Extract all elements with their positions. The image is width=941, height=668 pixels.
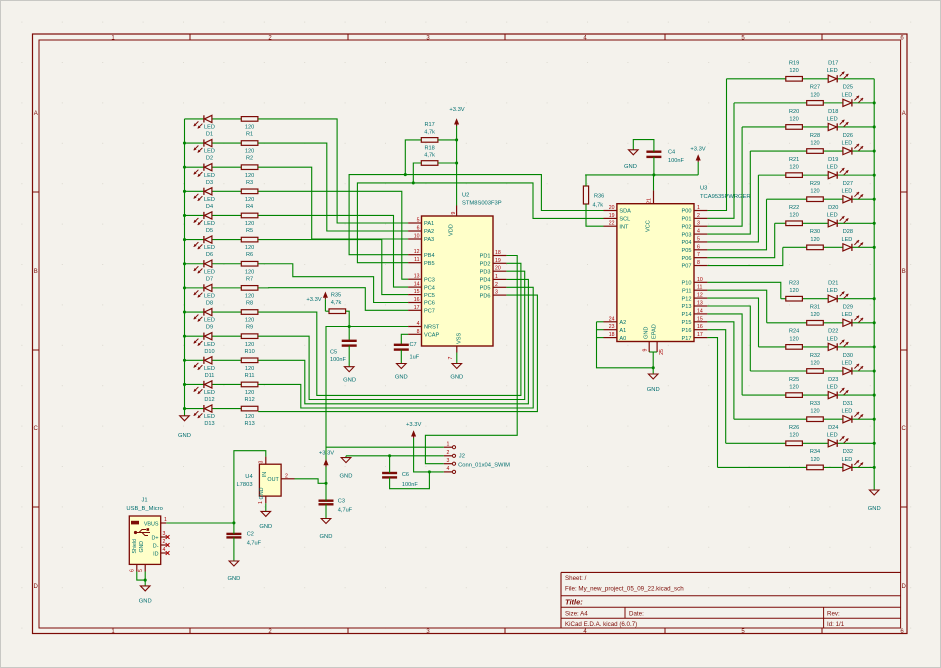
svg-text:12: 12: [414, 249, 420, 255]
svg-text:D3: D3: [206, 180, 213, 186]
svg-text:P03: P03: [682, 232, 692, 238]
svg-text:LED: LED: [841, 189, 852, 195]
svg-text:14: 14: [697, 308, 703, 314]
svg-text:VBUS: VBUS: [144, 521, 159, 527]
wire I2C rail PB4: [349, 175, 603, 255]
svg-text:120: 120: [810, 457, 819, 463]
svg-text:24: 24: [609, 316, 615, 322]
wire R11 to PD4: [258, 279, 528, 403]
wire row D12: [185, 383, 242, 385]
wire VCC rail: [585, 174, 698, 176]
svg-text:13: 13: [414, 274, 420, 280]
svg-text:LED: LED: [827, 385, 838, 391]
resistor R29: [807, 181, 824, 202]
svg-text:LED: LED: [827, 116, 838, 122]
svg-text:LED: LED: [827, 336, 838, 342]
wire VBUS to U4 IN: [234, 451, 266, 523]
svg-text:120: 120: [245, 318, 254, 324]
svg-text:120: 120: [789, 116, 798, 122]
resistor R31: [807, 305, 824, 326]
svg-text:1: 1: [164, 517, 167, 523]
svg-text:GND: GND: [139, 599, 152, 605]
svg-text:LED: LED: [841, 360, 852, 366]
wire P01 to row D25: [707, 103, 734, 218]
svg-text:P07: P07: [682, 264, 692, 270]
svg-text:16: 16: [414, 297, 420, 303]
svg-text:LED: LED: [841, 92, 852, 98]
svg-text:LED: LED: [827, 68, 838, 74]
LED D18: [827, 109, 849, 131]
wire P15 to row D31: [707, 322, 734, 419]
svg-text:15: 15: [414, 289, 420, 295]
svg-text:R36: R36: [594, 194, 604, 200]
wire row D2: [185, 142, 242, 144]
svg-text:2: 2: [495, 282, 498, 288]
wire P07 to row D28: [707, 247, 782, 265]
wire row D29: [767, 322, 875, 324]
wire row D7: [185, 263, 242, 265]
ground GND U4: [259, 511, 272, 530]
power +3.3V R35: [306, 292, 327, 311]
resistor R28: [807, 133, 824, 154]
svg-text:R31: R31: [810, 305, 820, 311]
svg-text:Shield: Shield: [132, 539, 138, 554]
svg-text:B: B: [902, 269, 906, 275]
svg-text:D8: D8: [206, 300, 213, 306]
svg-text:ID: ID: [153, 551, 158, 557]
svg-text:GND: GND: [139, 541, 145, 553]
svg-text:R23: R23: [789, 281, 799, 287]
svg-text:1: 1: [447, 441, 450, 447]
svg-text:4,7k: 4,7k: [424, 130, 435, 136]
svg-text:File: My_new_project_05_09_22.: File: My_new_project_05_09_22.kicad_sch: [565, 585, 684, 592]
svg-text:PD5: PD5: [480, 286, 491, 292]
svg-text:120: 120: [789, 165, 798, 171]
svg-text:120: 120: [789, 385, 798, 391]
LED D31: [841, 401, 863, 423]
wire row D25: [734, 102, 874, 104]
wire U4 OUT to +3.3V: [295, 479, 327, 484]
svg-text:1uF: 1uF: [410, 355, 420, 361]
LED D5: [194, 212, 215, 234]
svg-text:GND: GND: [259, 487, 265, 499]
power +3.3V riser: [319, 451, 334, 467]
wire row D10: [185, 335, 242, 337]
svg-text:R26: R26: [789, 425, 799, 431]
svg-text:D26: D26: [843, 133, 853, 139]
svg-text:P17: P17: [682, 336, 692, 342]
svg-text:GND: GND: [178, 433, 191, 439]
svg-text:LED: LED: [204, 342, 215, 348]
svg-text:120: 120: [245, 173, 254, 179]
svg-text:A0: A0: [619, 336, 626, 342]
svg-text:D9: D9: [206, 325, 213, 331]
svg-text:LED: LED: [204, 269, 215, 275]
wire P03 to row D26: [707, 151, 750, 234]
svg-text:GND: GND: [868, 506, 881, 512]
ground GND C4: [624, 150, 638, 170]
svg-text:D: D: [34, 584, 39, 590]
svg-text:D24: D24: [828, 425, 838, 431]
wire PD1 to J2 pin3: [425, 256, 517, 464]
wire J1 shield GND: [137, 572, 145, 586]
svg-text:R6: R6: [246, 252, 253, 258]
svg-text:23: 23: [609, 324, 615, 330]
resistor R13: [241, 406, 258, 427]
svg-text:PC3: PC3: [424, 277, 435, 283]
svg-text:PD2: PD2: [480, 262, 491, 268]
svg-text:2: 2: [285, 473, 288, 479]
svg-text:4,7k: 4,7k: [331, 300, 342, 306]
J1 reference labels: [126, 498, 162, 513]
svg-text:P04: P04: [682, 240, 692, 246]
svg-text:R7: R7: [246, 276, 253, 282]
wire row D17: [727, 78, 875, 80]
svg-text:R10: R10: [244, 349, 254, 355]
svg-text:R22: R22: [789, 205, 799, 211]
U2 pins: [408, 206, 506, 360]
svg-text:A1: A1: [619, 328, 626, 334]
svg-text:4: 4: [417, 321, 420, 327]
svg-text:D+: D+: [151, 535, 158, 541]
svg-text:Conn_01x04_SWIM: Conn_01x04_SWIM: [458, 462, 510, 468]
U2 reference labels: [462, 193, 502, 207]
wire P00 to row D17: [707, 79, 726, 211]
junction VBUS: [232, 521, 235, 524]
wire right GND bus: [873, 79, 875, 490]
wire R1 to PA1: [258, 119, 408, 223]
wire A2 A1 A0 to GND: [597, 322, 654, 368]
wire row D6: [185, 239, 242, 241]
connector J1 USB_B_Micro body: [129, 516, 160, 564]
capacitor C7: [394, 342, 420, 361]
svg-text:120: 120: [245, 390, 254, 396]
svg-text:D31: D31: [843, 401, 853, 407]
LED D29: [841, 305, 863, 327]
svg-text:P00: P00: [682, 209, 692, 215]
svg-text:R11: R11: [245, 373, 255, 379]
resistor R35: [329, 293, 346, 314]
svg-text:U3: U3: [700, 186, 707, 192]
resistor R36: [583, 186, 604, 209]
title block frame: [561, 572, 901, 628]
resistor R12: [241, 382, 258, 403]
svg-text:LED: LED: [841, 457, 852, 463]
svg-text:J2: J2: [459, 454, 465, 460]
svg-text:18: 18: [495, 250, 501, 256]
ground GND J1: [139, 586, 152, 605]
svg-text:12: 12: [697, 293, 703, 299]
wire row D1: [185, 118, 242, 120]
LED D1: [194, 115, 215, 137]
svg-text:R19: R19: [789, 61, 799, 67]
svg-text:LED: LED: [841, 409, 852, 415]
power +3.3V U3: [690, 146, 705, 175]
svg-text:1: 1: [258, 501, 264, 504]
svg-text:LED: LED: [204, 318, 215, 324]
wire row D28: [783, 246, 874, 248]
svg-text:A: A: [34, 111, 38, 117]
svg-text:LED: LED: [827, 213, 838, 219]
resistor R24: [786, 329, 803, 350]
svg-text:LED: LED: [841, 140, 852, 146]
resistor R2: [241, 141, 258, 162]
J1 pins: [130, 517, 170, 572]
svg-text:9: 9: [451, 211, 457, 214]
svg-text:R18: R18: [424, 146, 434, 152]
svg-text:R5: R5: [246, 228, 253, 234]
wire R36 top: [585, 175, 587, 186]
LED D17: [827, 61, 849, 83]
svg-text:100nF: 100nF: [330, 357, 346, 363]
svg-text:120: 120: [789, 68, 798, 74]
svg-text:VCAP: VCAP: [424, 333, 440, 339]
svg-text:7: 7: [697, 252, 700, 258]
svg-text:LED: LED: [827, 165, 838, 171]
svg-text:C6: C6: [402, 472, 409, 478]
resistor R25: [786, 377, 803, 398]
svg-text:120: 120: [810, 140, 819, 146]
resistor R9: [241, 310, 258, 331]
junction R35 NRST: [348, 325, 351, 328]
wire VCAP to C7: [401, 334, 408, 345]
svg-text:P13: P13: [682, 304, 692, 310]
svg-text:U2: U2: [462, 193, 469, 199]
svg-text:120: 120: [810, 312, 819, 318]
wire row D24: [726, 442, 875, 444]
svg-text:U4: U4: [245, 474, 253, 480]
LED D9: [194, 308, 215, 330]
svg-text:Size: A4: Size: A4: [565, 611, 588, 618]
resistor R3: [241, 165, 258, 186]
svg-text:120: 120: [245, 245, 254, 251]
resistor R21: [786, 157, 803, 178]
svg-text:P06: P06: [682, 256, 692, 262]
U3 reference labels: [700, 186, 751, 201]
wire VSS to GND: [456, 353, 458, 364]
svg-text:8: 8: [697, 260, 700, 266]
svg-text:21: 21: [647, 198, 653, 204]
svg-text:P10: P10: [682, 281, 692, 287]
wire R18 leads: [413, 163, 456, 183]
LED D28: [841, 229, 863, 251]
wire NRST: [326, 327, 408, 484]
svg-text:R29: R29: [810, 181, 820, 187]
U4 pins: [258, 457, 295, 504]
svg-text:GND: GND: [644, 327, 650, 339]
wire P13 to row D30: [707, 306, 750, 371]
wire P04 to row D19: [707, 175, 758, 242]
wire row D30: [750, 370, 874, 372]
svg-text:120: 120: [789, 288, 798, 294]
wire U3 VCC: [653, 175, 655, 191]
wire P17 to row D32: [707, 338, 717, 468]
wire I2C rail PB5: [357, 183, 603, 263]
svg-text:R33: R33: [810, 401, 820, 407]
svg-text:17: 17: [697, 332, 703, 338]
LED D26: [841, 133, 863, 155]
LED D19: [827, 157, 849, 179]
svg-text:C5: C5: [330, 350, 337, 356]
svg-text:Date:: Date:: [629, 611, 644, 618]
svg-text:6: 6: [417, 226, 420, 232]
svg-text:PC4: PC4: [424, 285, 435, 291]
svg-text:D29: D29: [843, 305, 853, 311]
svg-text:A: A: [902, 111, 906, 117]
wire P12 to row D22: [707, 298, 758, 347]
svg-text:1: 1: [495, 274, 498, 280]
svg-text:4,7k: 4,7k: [424, 153, 435, 159]
svg-text:A2: A2: [619, 320, 626, 326]
resistor R8: [241, 286, 258, 307]
wire row D13: [185, 408, 242, 410]
svg-text:3: 3: [259, 460, 265, 463]
wire row D4: [185, 190, 242, 192]
svg-text:20: 20: [495, 266, 501, 272]
svg-text:20: 20: [609, 205, 615, 211]
capacitor C5: [330, 341, 357, 363]
ground GND C7: [395, 364, 408, 381]
svg-text:USB_B_Micro: USB_B_Micro: [126, 506, 162, 512]
junction R18 SCL rail: [412, 181, 415, 184]
junctions on left GND bus: [183, 141, 186, 410]
LED D10: [194, 333, 215, 355]
capacitor C2: [226, 532, 261, 547]
resistor R10: [241, 334, 258, 355]
svg-text:GND: GND: [259, 524, 272, 530]
svg-text:P02: P02: [682, 224, 692, 230]
svg-text:19: 19: [609, 213, 615, 219]
ground GND U3: [647, 374, 660, 393]
ground GND J2: [340, 458, 353, 480]
svg-text:LED: LED: [204, 173, 215, 179]
svg-text:OUT: OUT: [267, 477, 279, 483]
op-amp U3 TCA9535PWR body: [617, 204, 694, 342]
ground GND C3: [320, 519, 333, 541]
resistor R5: [241, 213, 258, 234]
svg-text:5: 5: [138, 569, 144, 572]
resistor R34: [807, 449, 824, 470]
svg-text:R13: R13: [244, 421, 254, 427]
svg-text:GND: GND: [343, 377, 356, 383]
svg-text:120: 120: [810, 189, 819, 195]
connector J2 Conn_01x04_SWIM: [444, 441, 510, 473]
svg-text:120: 120: [789, 336, 798, 342]
svg-text:5: 5: [697, 236, 700, 242]
wire C7 to GND: [400, 350, 402, 364]
power +3.3V U2: [449, 107, 464, 126]
wire INT: [586, 204, 604, 226]
svg-text:TCA9535PWRGER: TCA9535PWRGER: [700, 194, 751, 200]
svg-text:LED: LED: [841, 237, 852, 243]
op-amp U2 STM8S003F3P body: [422, 216, 494, 346]
resistor R22: [786, 205, 803, 226]
svg-text:EPAD: EPAD: [652, 324, 658, 339]
resistor R26: [786, 425, 803, 446]
svg-text:R24: R24: [789, 329, 799, 335]
svg-text:R25: R25: [789, 377, 799, 383]
LED D30: [841, 353, 863, 375]
svg-text:PB4: PB4: [424, 253, 435, 259]
svg-text:LED: LED: [204, 221, 215, 227]
svg-text:18: 18: [609, 332, 615, 338]
svg-text:R1: R1: [246, 132, 253, 138]
svg-text:C3: C3: [338, 499, 345, 505]
svg-text:D1: D1: [206, 132, 213, 138]
svg-text:P11: P11: [682, 288, 692, 294]
wire U2 VDD rail: [456, 126, 458, 206]
capacitor C6: [382, 472, 418, 488]
svg-text:D6: D6: [206, 252, 213, 258]
junction C4 VCC: [652, 173, 655, 176]
svg-text:D25: D25: [843, 85, 853, 91]
svg-text:120: 120: [810, 409, 819, 415]
resistor R19: [786, 61, 803, 82]
LED D27: [841, 181, 863, 203]
wire U4 GND: [265, 503, 267, 511]
wire U3 GND pins: [649, 352, 657, 374]
svg-text:120: 120: [810, 360, 819, 366]
svg-text:D13: D13: [204, 421, 214, 427]
LED D32: [841, 449, 863, 471]
svg-text:PD6: PD6: [480, 293, 491, 299]
svg-text:11: 11: [414, 257, 419, 263]
wire J2 pin4 NRST: [414, 447, 444, 472]
svg-text:D18: D18: [828, 109, 838, 115]
wire row D26: [750, 150, 874, 152]
LED D6: [194, 236, 215, 258]
LED D4: [194, 188, 215, 210]
LED D12: [194, 381, 215, 403]
svg-text:GND: GND: [647, 387, 660, 393]
svg-text:9: 9: [643, 348, 649, 351]
wire R17 leads: [405, 140, 456, 175]
svg-text:VCC: VCC: [646, 220, 652, 232]
svg-text:D23: D23: [828, 377, 838, 383]
wire R35 left lead: [325, 310, 328, 312]
svg-text:R4: R4: [246, 204, 253, 210]
svg-text:4: 4: [163, 547, 166, 553]
svg-text:D32: D32: [843, 449, 853, 455]
LED D25: [841, 85, 863, 107]
svg-text:Id: 1/1: Id: 1/1: [827, 621, 845, 628]
svg-text:R21: R21: [789, 157, 799, 163]
svg-text:120: 120: [245, 269, 254, 275]
wire row D19: [758, 174, 874, 176]
LED D3: [194, 164, 215, 186]
svg-text:C: C: [902, 426, 907, 432]
svg-text:R35: R35: [331, 293, 341, 299]
svg-text:PD4: PD4: [480, 278, 491, 284]
svg-text:D12: D12: [204, 397, 214, 403]
capacitor C3: [319, 499, 353, 514]
wire row D23: [742, 394, 874, 396]
svg-text:D19: D19: [828, 157, 838, 163]
title block text: [565, 575, 845, 628]
wire C5 to GND: [348, 346, 350, 367]
svg-text:LED: LED: [827, 288, 838, 294]
wire row D31: [734, 418, 874, 420]
svg-text:120: 120: [245, 221, 254, 227]
wire C3: [325, 483, 327, 518]
svg-text:LED: LED: [827, 433, 838, 439]
svg-text:INT: INT: [619, 224, 629, 230]
svg-text:4,7uF: 4,7uF: [338, 508, 353, 514]
wire left GND bus: [184, 119, 186, 416]
wire R6 to PC5: [258, 240, 408, 295]
svg-text:7: 7: [448, 356, 454, 359]
svg-text:120: 120: [245, 366, 254, 372]
